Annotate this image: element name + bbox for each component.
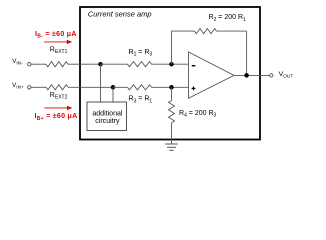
svg-text:circuitry: circuitry: [95, 118, 120, 125]
wire node D to R4: [171, 87, 173, 100]
pin - (inverting): [192, 65, 196, 67]
wire node B to R3: [113, 86, 128, 88]
node E output junction: [244, 73, 249, 78]
resistor R3: [128, 85, 152, 90]
svg-text:Current sense amp: Current sense amp: [88, 9, 152, 18]
wire R1 to op-amp inverting input: [152, 63, 189, 65]
enclosure box (current sense amp boundary): [80, 7, 260, 140]
resistor R2: [195, 29, 217, 34]
wire VIN- to REXT1: [31, 63, 46, 65]
node B junction: [111, 85, 116, 90]
node VOUT terminal: [270, 74, 273, 77]
node VIN+ terminal: [28, 86, 31, 89]
wire feedback top left: [172, 30, 195, 32]
resistor REXT2: [46, 85, 68, 90]
wire feedback top right: [217, 30, 247, 32]
wire feedback down to output node: [246, 31, 248, 75]
pin + (non-inverting): [192, 87, 196, 91]
resistor R4: [169, 101, 175, 123]
wire node A drop to additional circuitry: [100, 64, 102, 102]
wire R4 to ground: [171, 123, 173, 144]
node VIN- terminal: [28, 62, 31, 65]
wire node A to R1: [101, 63, 128, 65]
wire feedback riser: [171, 31, 173, 64]
wire REXT2 to node B: [68, 86, 113, 88]
arrow IB+ direction: [44, 106, 72, 110]
wire op-amp output: [234, 74, 270, 76]
wire node B drop to additional circuitry: [112, 87, 114, 102]
wire REXT1 to node A: [68, 63, 101, 65]
resistor REXT1: [46, 62, 68, 67]
resistor R1: [128, 62, 152, 67]
wire R3 to op-amp non-inverting input: [152, 86, 189, 88]
ground: [165, 144, 177, 150]
node C junction (inverting input / feedback): [169, 62, 174, 67]
wire VIN+ to REXT2: [31, 86, 46, 88]
node D junction (non-inverting input / R4): [169, 85, 174, 90]
svg-text:additional: additional: [92, 110, 123, 117]
node A junction: [98, 62, 103, 67]
additional circuitry block: [87, 102, 127, 131]
op-amp U1: [189, 52, 235, 98]
arrow IB- direction: [44, 40, 72, 44]
